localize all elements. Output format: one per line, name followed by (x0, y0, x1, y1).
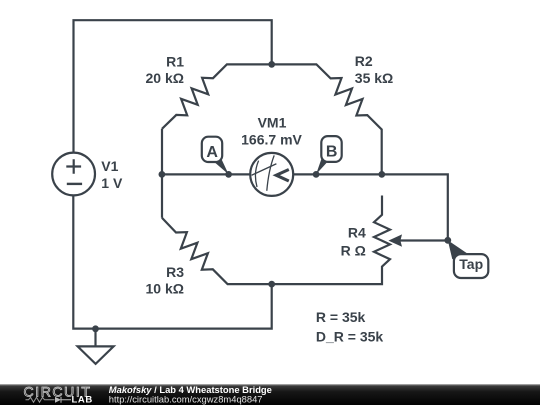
flag node B box (321, 136, 341, 162)
node dot: B leader attach (313, 171, 320, 178)
flag node A box (202, 137, 222, 162)
svg-text:35 kΩ: 35 kΩ (355, 70, 393, 86)
node dot: A leader attach (225, 171, 232, 178)
resistor R3 (162, 218, 272, 284)
wire voltmeter to right side and down to tap (293, 174, 448, 240)
wire bottom node down and across to V1 (73, 195, 271, 328)
svg-text:R Ω: R Ω (341, 243, 366, 259)
svg-text:R4: R4 (348, 225, 366, 241)
node dot: left branch at bridge (159, 171, 166, 178)
svg-text:http://circuitlab.com/cxgwz8m4: http://circuitlab.com/cxgwz8m4q8847 (109, 394, 263, 405)
flag Tap box (454, 254, 488, 278)
svg-text:R2: R2 (355, 53, 373, 69)
svg-text:20 kΩ: 20 kΩ (146, 70, 184, 86)
svg-text:R1: R1 (166, 54, 184, 70)
svg-text:1 V: 1 V (101, 175, 123, 191)
svg-text:LAB: LAB (72, 394, 93, 405)
ground symbol triangle (78, 346, 114, 364)
R4 wiper arrowhead (388, 234, 402, 246)
node dot: R2/R4 junction (378, 171, 385, 178)
footer bar (0, 384, 540, 405)
logo diode glyph (55, 397, 61, 403)
svg-text:VM1: VM1 (258, 115, 287, 131)
node dot: ground junction (92, 325, 99, 332)
node dot: R1/R2 top junction (268, 61, 275, 68)
flag Tap leader wedge (448, 240, 469, 259)
wire V1 top to bridge top node (74, 20, 272, 153)
svg-text:Tap: Tap (459, 256, 483, 272)
svg-text:10 kΩ: 10 kΩ (146, 280, 184, 296)
voltmeter VM1 circle (250, 153, 293, 196)
svg-text:166.7 mV: 166.7 mV (241, 131, 302, 147)
wire left branch R1 to R3 (161, 129, 163, 218)
flag node B leader wedge (316, 156, 329, 175)
VM1 meter arc 1 (255, 161, 258, 187)
voltage source V1 circle (52, 153, 95, 196)
VM1 meter arc 2 (267, 155, 274, 190)
VM1 needle (252, 164, 277, 175)
node dot: bottom junction (268, 281, 275, 288)
V1 minus sign (67, 183, 82, 185)
V1 plus sign (66, 159, 81, 173)
svg-text:V1: V1 (101, 158, 118, 174)
resistor R2 (272, 64, 382, 174)
svg-text:D_R = 35k: D_R = 35k (316, 329, 384, 345)
flag node A leader wedge (213, 157, 229, 174)
svg-text:A: A (206, 144, 218, 161)
svg-text:B: B (326, 143, 338, 160)
resistor R1 (162, 64, 272, 128)
potentiometer R4 (272, 196, 390, 285)
VM1 less-than mark (276, 170, 289, 182)
svg-text:R3: R3 (166, 264, 184, 280)
logo resistor glyph (26, 397, 55, 402)
svg-text:R = 35k: R = 35k (316, 309, 366, 325)
ground stem (94, 329, 96, 347)
node dot: tap junction (444, 237, 451, 244)
R4 wiper wire (399, 239, 448, 241)
wire bridge left node to voltmeter (162, 173, 250, 175)
